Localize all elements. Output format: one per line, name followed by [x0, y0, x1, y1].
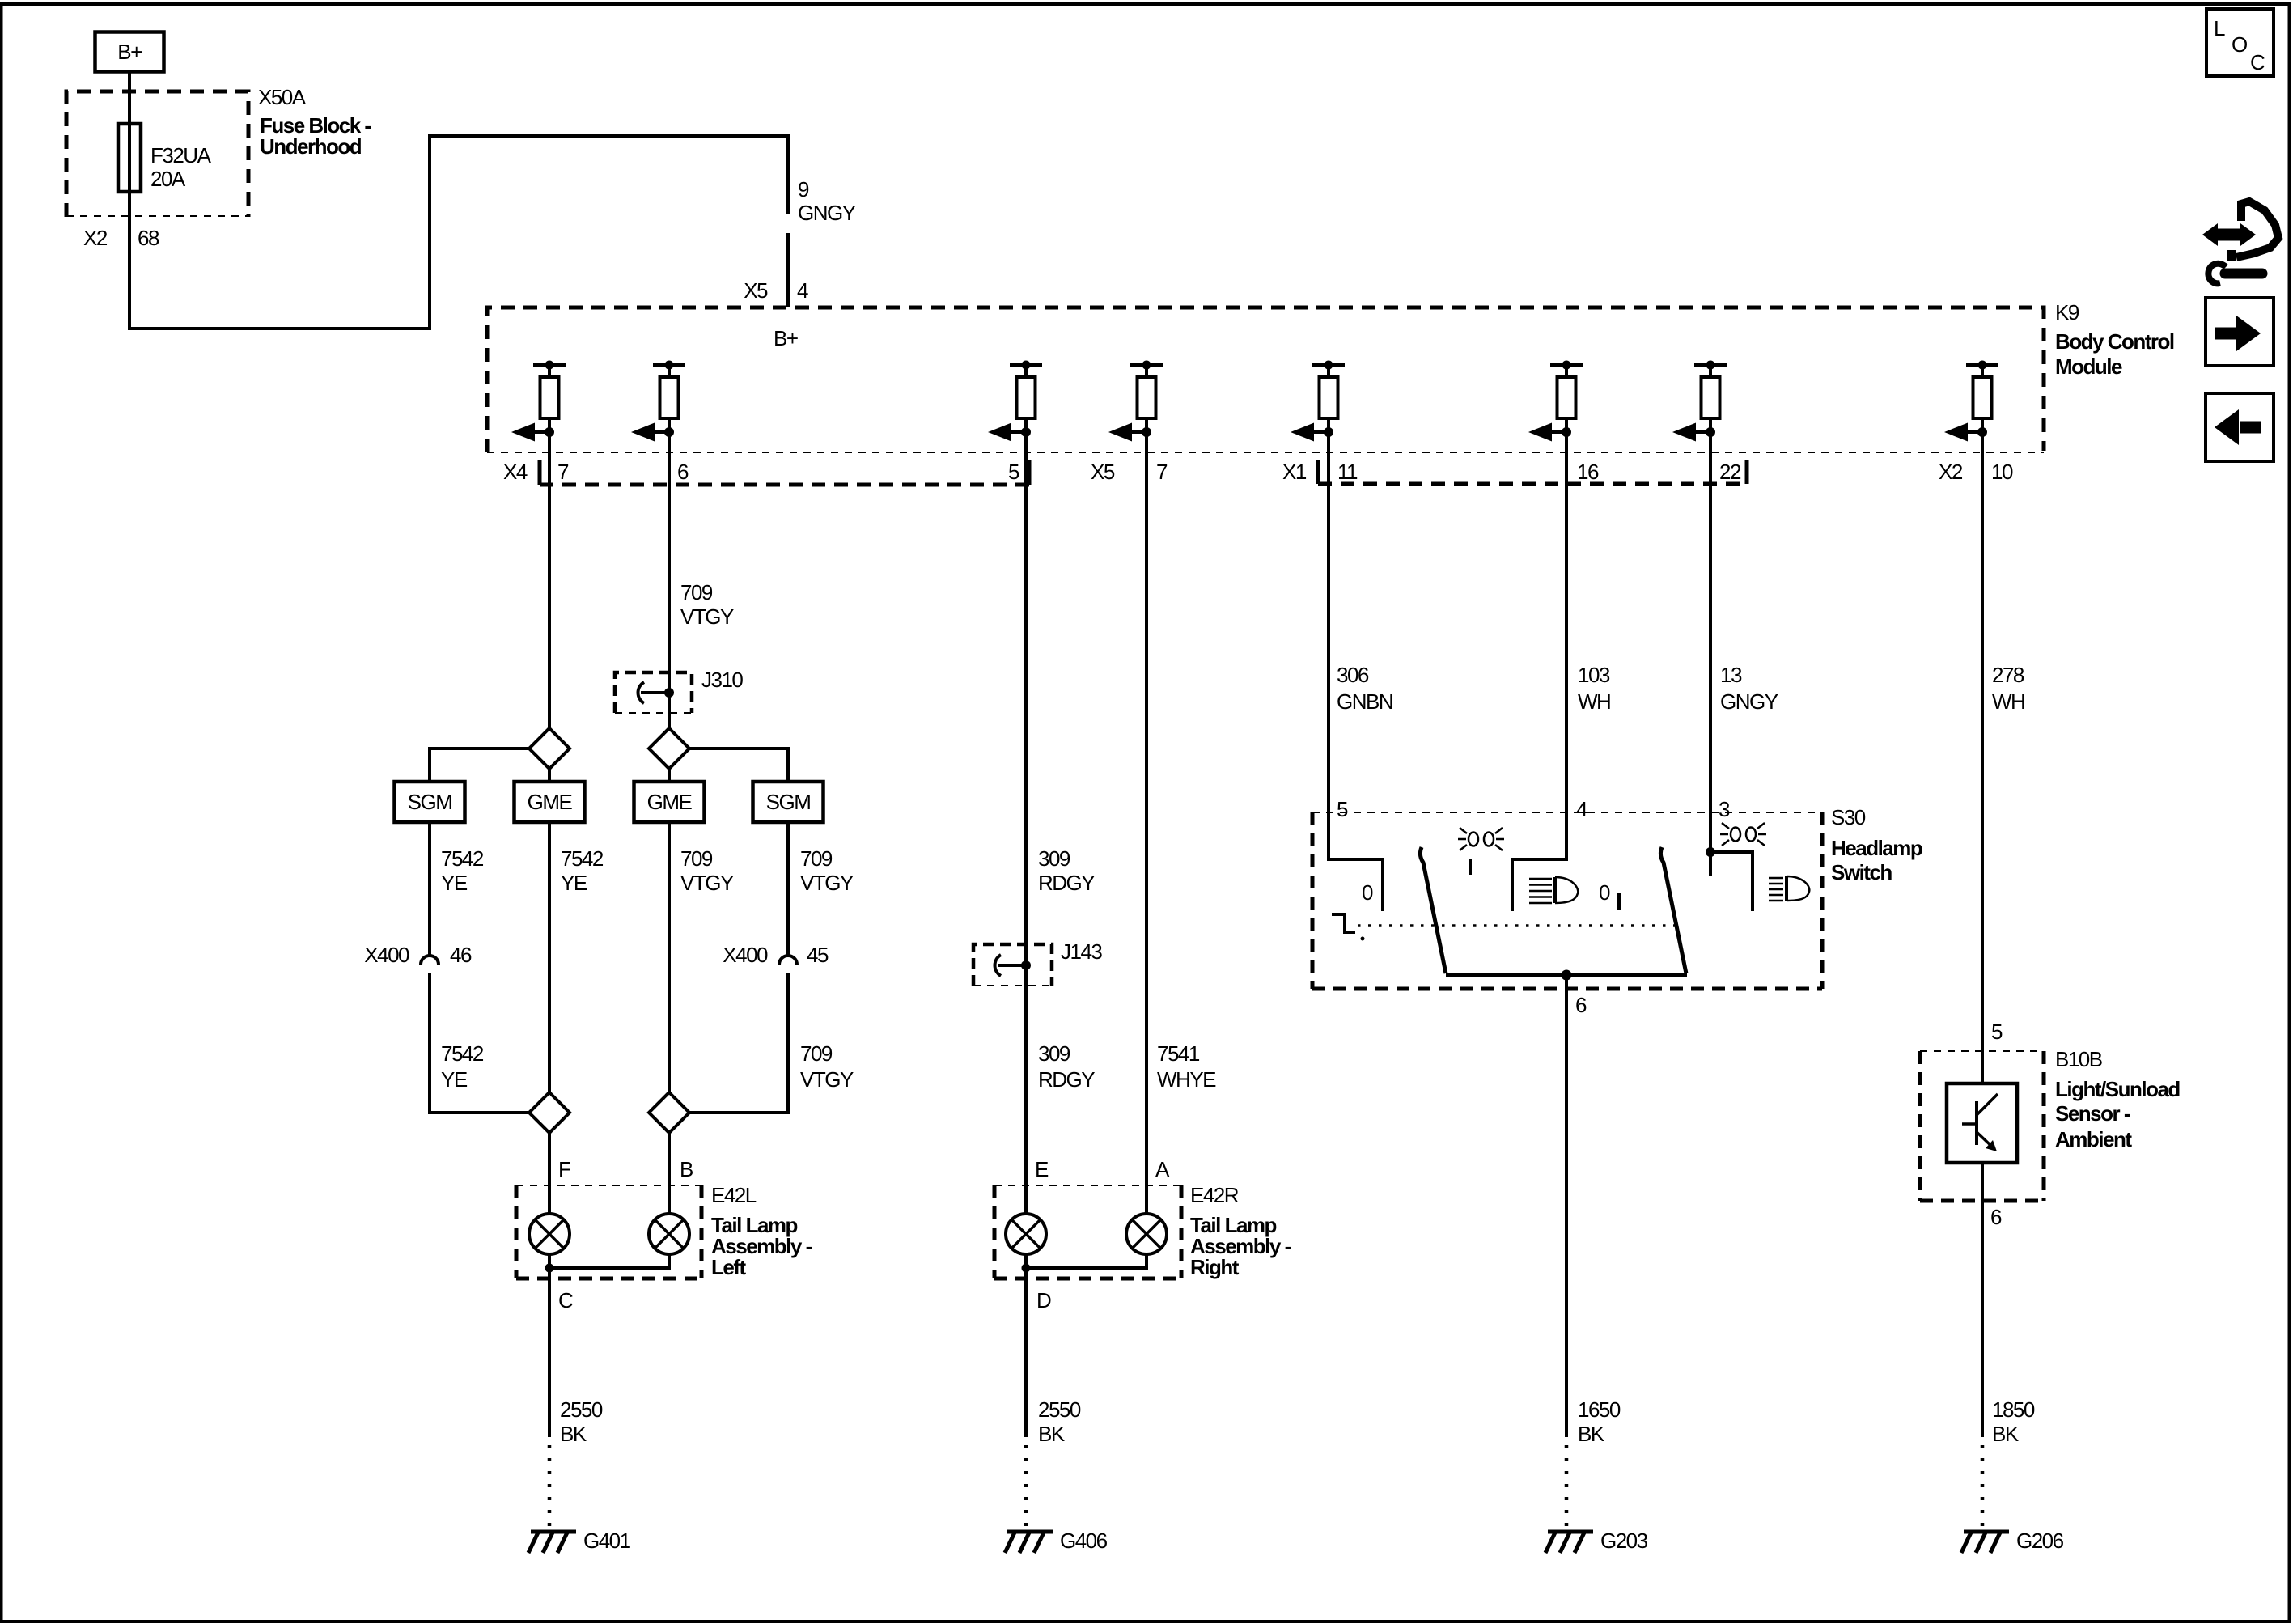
svg-text:Ambient: Ambient: [2055, 1127, 2132, 1151]
svg-text:1650: 1650: [1578, 1397, 1621, 1422]
wire B+ feed to BCM X5-4: [129, 72, 788, 329]
svg-text:22: 22: [1719, 460, 1741, 484]
svg-text:2550: 2550: [1038, 1397, 1081, 1422]
tail lamp bulb E42R stop: [1126, 1214, 1167, 1254]
svg-text:46: 46: [450, 943, 472, 967]
switch blade 2: [1660, 847, 1686, 973]
svg-text:4: 4: [1576, 797, 1587, 821]
connector code box GME: [634, 782, 705, 822]
wire lamp bottoms join: [549, 1254, 669, 1268]
svg-text:309: 309: [1038, 846, 1070, 871]
svg-text:E42R: E42R: [1190, 1183, 1239, 1207]
harness twist icon: [2202, 201, 2278, 283]
svg-text:16: 16: [1577, 460, 1599, 484]
wire 278 WH X2-10 to sensor: [1981, 432, 1984, 1083]
phototransistor box: [1947, 1083, 2017, 1163]
wire 13 GNGY pin22 to switch: [1709, 432, 1712, 812]
arrow left legend box: [2206, 393, 2274, 461]
svg-text:BK: BK: [1038, 1422, 1066, 1446]
svg-text:306: 306: [1337, 663, 1369, 687]
svg-text:YE: YE: [561, 871, 587, 895]
wire branch to SGM right: [689, 748, 788, 782]
ground G206: [1961, 1532, 2009, 1553]
svg-text:709: 709: [800, 1041, 833, 1066]
switch fixed contact pin 4: [1512, 812, 1566, 911]
svg-text:Body Control: Body Control: [2055, 329, 2174, 354]
svg-text:Underhood: Underhood: [260, 134, 362, 159]
parking lamp icon: [1458, 828, 1504, 850]
svg-text:G406: G406: [1060, 1529, 1108, 1553]
svg-text:GME: GME: [528, 790, 573, 814]
switch blade 1: [1420, 847, 1446, 973]
wire X400-46 down to diamond: [430, 973, 529, 1113]
svg-text:68: 68: [138, 226, 159, 250]
wire GME left down: [548, 822, 551, 1092]
svg-text:G203: G203: [1600, 1529, 1648, 1553]
svg-text:7542: 7542: [561, 846, 604, 871]
wire branch to SGM left: [430, 748, 529, 782]
svg-text:278: 278: [1992, 663, 2024, 687]
svg-text:G401: G401: [583, 1529, 631, 1553]
svg-text:X1: X1: [1282, 460, 1307, 484]
svg-text:7542: 7542: [441, 846, 484, 871]
svg-text:F: F: [558, 1157, 570, 1181]
BCM output driver pin X5-7: [1108, 361, 1163, 442]
BCM output driver pin 22: [1672, 361, 1727, 442]
BCM output driver pin X4-7: [511, 361, 566, 442]
svg-text:20A: 20A: [150, 167, 186, 191]
headlamp flash icon: [1720, 823, 1766, 846]
svg-text:B+: B+: [117, 40, 142, 64]
svg-text:WH: WH: [1578, 689, 1610, 714]
wire GME right down: [668, 822, 671, 1092]
wire 9 GNGY lower segment: [786, 233, 790, 307]
svg-text:X5: X5: [744, 278, 768, 303]
wire 2550 BK to G406: [1024, 1268, 1028, 1437]
svg-text:7541: 7541: [1157, 1041, 1200, 1066]
svg-text:VTGY: VTGY: [680, 871, 734, 895]
svg-text:WH: WH: [1992, 689, 2024, 714]
switch fixed contact pin 5: [1329, 812, 1383, 911]
svg-text:Light/Sunload: Light/Sunload: [2055, 1077, 2180, 1101]
low beam headlamp icon left: [1529, 877, 1578, 903]
parking contact tick: [1469, 859, 1472, 875]
connector code box SGM: [395, 782, 465, 822]
svg-text:309: 309: [1038, 1041, 1070, 1066]
wire SGM right down to X400: [786, 822, 790, 956]
LOC legend box: [2206, 9, 2274, 76]
switch fixed contact pin 3 branch: [1710, 852, 1753, 911]
wire X400-45 down to diamond: [689, 973, 788, 1113]
svg-text:WHYE: WHYE: [1157, 1067, 1216, 1092]
svg-text:103: 103: [1578, 663, 1610, 687]
splice diamond top left: [529, 728, 570, 769]
svg-text:C: C: [2250, 50, 2265, 74]
svg-text:GME: GME: [647, 790, 693, 814]
headlamp switch S30 dashed box: [1312, 812, 1822, 813]
wire 306 GNBN X1-11 to switch: [1327, 432, 1330, 812]
connector code box GME: [515, 782, 585, 822]
arrow right legend box: [2206, 298, 2274, 366]
BCM connector pin strip X4: [540, 460, 1029, 485]
wire 103 WH pin16 to switch: [1565, 432, 1568, 812]
svg-text:6: 6: [1575, 993, 1587, 1017]
splice diamond top right: [649, 728, 689, 769]
switch common junction: [1562, 970, 1572, 981]
svg-text:X2: X2: [1939, 460, 1963, 484]
wire diamond to GME left: [548, 769, 551, 782]
wire SGM left down to X400: [428, 822, 431, 956]
wire 7541 WHYE X5-7 down: [1145, 432, 1148, 1214]
svg-text:VTGY: VTGY: [800, 1067, 854, 1092]
svg-text:3: 3: [1719, 797, 1730, 821]
inline connector X400 pin 45: [779, 956, 797, 965]
svg-text:E42L: E42L: [711, 1183, 757, 1207]
ground G401: [528, 1532, 576, 1553]
svg-text:RDGY: RDGY: [1038, 1067, 1095, 1092]
svg-text:709: 709: [680, 846, 713, 871]
svg-text:E: E: [1035, 1157, 1049, 1181]
svg-text:Headlamp: Headlamp: [1831, 836, 1922, 860]
svg-text:GNGY: GNGY: [1720, 689, 1778, 714]
svg-text:9: 9: [798, 177, 809, 201]
svg-text:GNBN: GNBN: [1337, 689, 1392, 714]
svg-text:G206: G206: [2016, 1529, 2064, 1553]
wire diamond to lamp F: [548, 1133, 551, 1214]
tail lamp bulb E42R park: [1006, 1214, 1046, 1254]
svg-text:X400: X400: [364, 943, 409, 967]
splice diamond bottom right: [649, 1092, 689, 1133]
svg-text:7542: 7542: [441, 1041, 484, 1066]
wire diamond to lamp B: [668, 1133, 671, 1214]
ground G203: [1545, 1532, 1593, 1553]
svg-text:BK: BK: [560, 1422, 587, 1446]
svg-text:6: 6: [677, 460, 689, 484]
svg-text:BK: BK: [1992, 1422, 2020, 1446]
switch common bus: [1446, 973, 1687, 977]
svg-text:RDGY: RDGY: [1038, 871, 1095, 895]
body control module K9 dashed box: [487, 307, 2044, 452]
svg-text:YE: YE: [441, 871, 468, 895]
svg-text:X4: X4: [503, 460, 528, 484]
svg-text:709: 709: [800, 846, 833, 871]
switch detent step: [1332, 914, 1355, 932]
svg-text:X5: X5: [1091, 460, 1115, 484]
BCM output driver pin X2-10: [1944, 361, 1998, 442]
svg-text:5: 5: [1337, 797, 1348, 821]
svg-text:1850: 1850: [1992, 1397, 2035, 1422]
switch tick second: [1617, 893, 1621, 910]
svg-text:X50A: X50A: [258, 85, 307, 109]
svg-text:7: 7: [1156, 460, 1168, 484]
tail lamp assembly left E42L dashed box: [516, 1185, 701, 1186]
svg-text:YE: YE: [441, 1067, 468, 1092]
svg-text:Module: Module: [2055, 354, 2122, 379]
svg-text:4: 4: [797, 278, 808, 303]
svg-text:709: 709: [680, 580, 713, 604]
svg-text:7: 7: [557, 460, 569, 484]
svg-text:D: D: [1036, 1288, 1051, 1312]
wire 309 RDGY pin5 down through J143: [1024, 432, 1028, 1214]
tail lamp assembly right E42R dashed box: [994, 1185, 1181, 1186]
BCM output driver pin X4-6: [631, 361, 685, 442]
BCM output driver pin 5: [988, 361, 1042, 442]
fuse F32UA 20A: [118, 124, 141, 192]
wire 2550 BK to G401: [548, 1268, 551, 1437]
svg-text:Right: Right: [1190, 1255, 1240, 1279]
svg-text:B: B: [680, 1157, 693, 1181]
svg-text:2550: 2550: [560, 1397, 603, 1422]
svg-text:SGM: SGM: [408, 790, 452, 814]
svg-text:Sensor -: Sensor -: [2055, 1101, 2130, 1126]
wire 709 VTGY X4-6 down through J310: [668, 432, 671, 728]
low beam headlamp icon right: [1769, 876, 1809, 901]
svg-text:A: A: [1155, 1157, 1170, 1181]
svg-text:J143: J143: [1061, 939, 1102, 964]
svg-text:10: 10: [1991, 460, 2013, 484]
connector code box SGM: [753, 782, 824, 822]
tail lamp bulb E42L stop: [649, 1214, 689, 1254]
wire diamond to GME right: [668, 769, 671, 782]
svg-text:VTGY: VTGY: [680, 604, 734, 629]
svg-text:5: 5: [1991, 1020, 2003, 1044]
svg-text:45: 45: [807, 943, 829, 967]
svg-text:BK: BK: [1578, 1422, 1605, 1446]
svg-text:0: 0: [1362, 880, 1373, 905]
inline connector X400 pin 46: [421, 956, 439, 965]
light/sunload sensor B10B dashed box: [1920, 1050, 2044, 1052]
svg-text:C: C: [558, 1288, 573, 1312]
node B+ battery feed box: [95, 32, 164, 72]
svg-text:6: 6: [1990, 1205, 2002, 1229]
svg-text:Switch: Switch: [1831, 860, 1892, 884]
svg-text:VTGY: VTGY: [800, 871, 854, 895]
ground G406: [1005, 1532, 1053, 1553]
BCM output driver pin 16: [1528, 361, 1583, 442]
svg-text:5: 5: [1008, 460, 1019, 484]
svg-text:B+: B+: [774, 326, 798, 350]
svg-text:13: 13: [1720, 663, 1742, 687]
splice pack J143 dashed box: [973, 944, 1052, 986]
svg-text:S30: S30: [1831, 805, 1866, 829]
BCM output driver pin X1-11: [1291, 361, 1345, 442]
BCM connector pin strip X1: [1318, 460, 1747, 484]
svg-text:B10B: B10B: [2055, 1047, 2102, 1071]
svg-text:X2: X2: [83, 226, 108, 250]
svg-text:X400: X400: [723, 943, 768, 967]
wire X4-7 to splice diamond: [548, 432, 551, 728]
svg-text:L: L: [2214, 16, 2225, 40]
svg-text:11: 11: [1337, 460, 1358, 484]
splice pack J310 dashed box: [615, 672, 692, 713]
svg-text:K9: K9: [2055, 300, 2079, 324]
fuse block X50A dashed box: [66, 91, 248, 217]
svg-text:0: 0: [1599, 880, 1610, 905]
svg-text:GNGY: GNGY: [798, 201, 856, 225]
switch travel dotted line: [1358, 924, 1675, 927]
wire sensor pin 6 down: [1981, 1163, 1984, 1437]
wire lamp bottoms join right: [1026, 1254, 1146, 1268]
wire pin 22 junction: [1709, 812, 1712, 876]
svg-text:Left: Left: [711, 1255, 747, 1279]
svg-text:O: O: [2232, 32, 2247, 57]
phototransistor symbol: [1975, 1101, 1978, 1145]
splice diamond bottom left: [529, 1092, 570, 1133]
svg-text:SGM: SGM: [766, 790, 811, 814]
tail lamp bulb E42L park: [529, 1214, 570, 1254]
svg-text:J310: J310: [701, 668, 743, 692]
svg-text:F32UA: F32UA: [150, 143, 212, 167]
wire switch pin 6 out: [1565, 975, 1568, 1437]
